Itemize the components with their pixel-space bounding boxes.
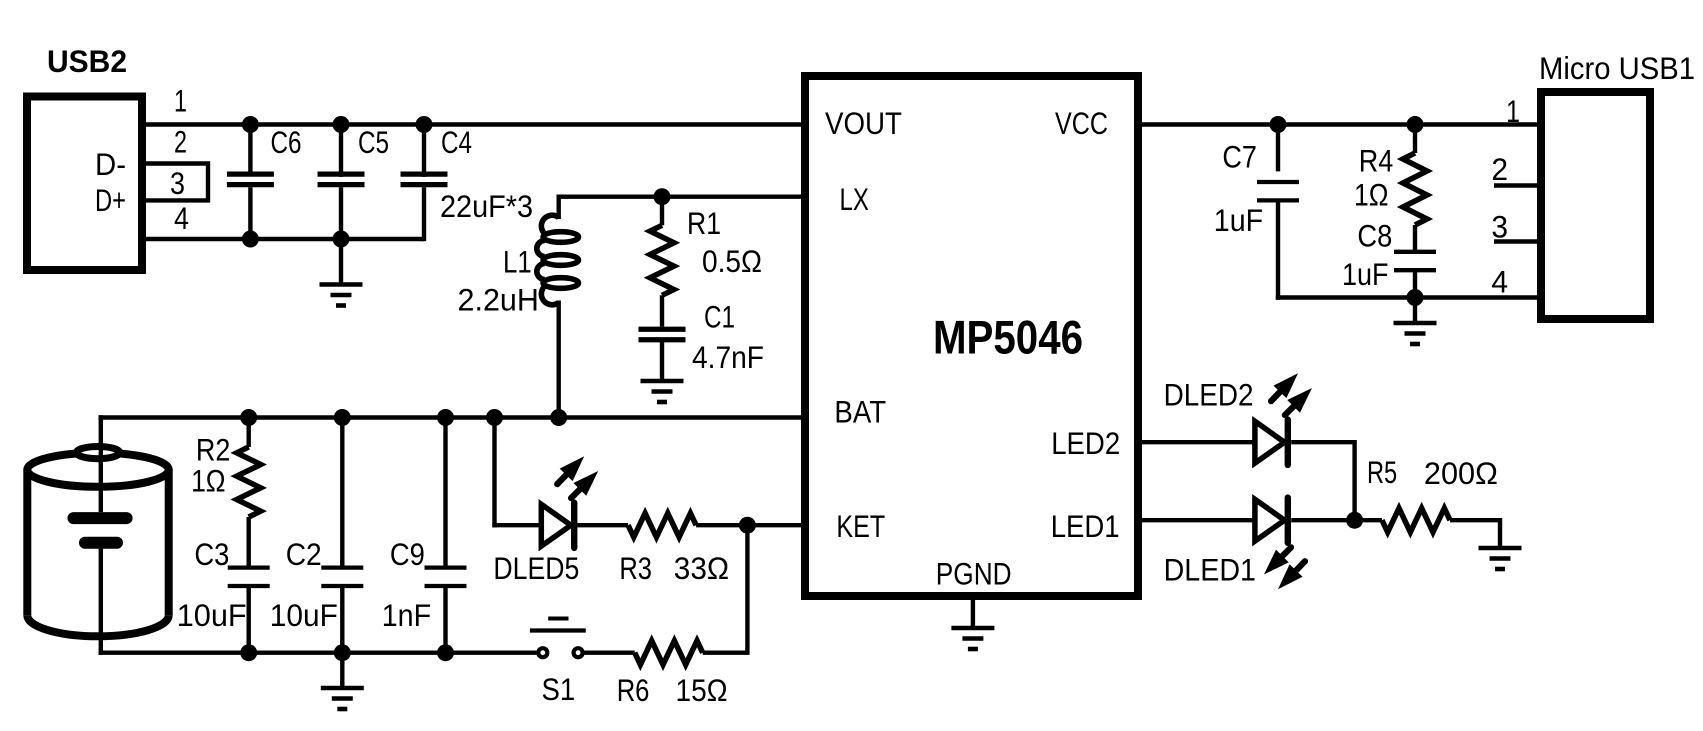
- node dot BAT-DLED5: [486, 409, 503, 426]
- label C9 1nF: [382, 597, 431, 633]
- MicroUSB pin 4 label: [1491, 264, 1508, 300]
- pin label LED1: [1051, 508, 1120, 544]
- node dot C5 bottom: [333, 231, 350, 248]
- label MP5046: [933, 310, 1083, 363]
- svg-text:C7: C7: [1222, 138, 1257, 174]
- MicroUSB pin 2 label: [1491, 151, 1508, 187]
- capacitor C2: [321, 418, 363, 653]
- MicroUSB pin 1 label: [1506, 93, 1520, 129]
- label C3: [194, 536, 229, 572]
- USB2 pin 4 label: [174, 200, 189, 236]
- pin label LX: [840, 181, 869, 217]
- svg-text:R6: R6: [617, 672, 650, 708]
- LED arrows DLED5: [557, 456, 598, 498]
- svg-text:10uF: 10uF: [270, 597, 338, 633]
- label C7 1uF: [1214, 202, 1263, 238]
- pin label PGND: [936, 556, 1012, 592]
- svg-text:4.7nF: 4.7nF: [692, 339, 764, 375]
- label 200ohm: [1424, 455, 1498, 491]
- capacitor C5: [318, 125, 365, 240]
- svg-text:C8: C8: [1357, 218, 1392, 254]
- label C7: [1222, 138, 1257, 174]
- label C4: [441, 124, 472, 160]
- wire DLED1 to R5: [1291, 518, 1382, 522]
- USB2 pin 1 label: [174, 83, 187, 119]
- label R4: [1359, 143, 1394, 179]
- battery B1: [27, 447, 168, 637]
- svg-text:D-: D-: [95, 146, 126, 182]
- diode DLED1: [1255, 498, 1288, 543]
- switch S1: [530, 619, 586, 658]
- label C8: [1357, 218, 1392, 254]
- capacitor C8: [1394, 225, 1436, 298]
- svg-text:1uF: 1uF: [1342, 256, 1389, 292]
- USB2 pin2-pin3 short box: [146, 164, 208, 201]
- USB2 label D+: [95, 182, 126, 218]
- label C5: [358, 124, 389, 160]
- label 33ohm: [674, 550, 729, 586]
- svg-text:L1: L1: [503, 243, 532, 279]
- ground after R5: [1479, 548, 1522, 569]
- wire S1 to R6: [584, 651, 634, 655]
- wire VCC rail: [1138, 122, 1541, 126]
- resistor R5: [1382, 508, 1450, 532]
- svg-text:2: 2: [1491, 151, 1508, 187]
- capacitor C7: [1257, 125, 1299, 300]
- ground under C8: [1394, 323, 1437, 344]
- svg-text:3: 3: [1491, 209, 1508, 245]
- MicroUSB pin 2 stub: [1494, 183, 1537, 187]
- label C8 1uF: [1342, 256, 1389, 292]
- LED arrows DLED2: [1271, 373, 1312, 415]
- label R2: [196, 432, 231, 468]
- svg-text:C2: C2: [286, 536, 322, 572]
- resistor R1: [650, 197, 674, 296]
- wire VOUT rail: [142, 122, 805, 126]
- pin label VCC: [1055, 105, 1108, 141]
- svg-text:4: 4: [1491, 264, 1508, 300]
- svg-text:USB2: USB2: [47, 43, 127, 79]
- wire BAT rail: [99, 415, 805, 419]
- svg-text:LED1: LED1: [1051, 508, 1120, 544]
- node dot C6 bottom: [242, 231, 259, 248]
- wire battery bottom: [99, 549, 103, 655]
- node dot LX-R1: [654, 188, 671, 205]
- svg-text:VOUT: VOUT: [825, 105, 902, 141]
- op-amp IC U1 MP5046 box: [805, 76, 1138, 596]
- wire LX: [557, 195, 806, 220]
- svg-text:LED2: LED2: [1051, 425, 1120, 461]
- label 0.5ohm: [702, 243, 762, 279]
- label C9: [390, 536, 425, 572]
- svg-text:KET: KET: [836, 508, 885, 544]
- label DLED5: [493, 550, 579, 586]
- label R4 1ohm: [1354, 177, 1389, 213]
- label C2 10uF: [270, 597, 338, 633]
- label 4.7nF: [692, 339, 764, 375]
- svg-text:1uF: 1uF: [1214, 202, 1263, 238]
- svg-text:1: 1: [174, 83, 187, 119]
- MicroUSB pin 3 stub: [1494, 239, 1537, 243]
- wire bottom rail: [99, 651, 537, 655]
- svg-text:PGND: PGND: [936, 556, 1012, 592]
- svg-text:LX: LX: [840, 181, 869, 217]
- svg-text:C9: C9: [390, 536, 425, 572]
- capacitor C1: [639, 295, 686, 381]
- svg-text:VCC: VCC: [1055, 105, 1108, 141]
- wire R3 to KET: [696, 523, 805, 527]
- label DLED1: [1164, 551, 1256, 587]
- svg-text:22uF*3: 22uF*3: [440, 188, 533, 224]
- svg-text:Micro USB1: Micro USB1: [1539, 50, 1695, 86]
- ground under C1: [641, 381, 684, 402]
- label 2.2uH: [458, 282, 539, 318]
- diode DLED5: [541, 503, 574, 548]
- USB2 label D-: [95, 146, 126, 182]
- svg-text:1: 1: [1506, 93, 1520, 129]
- svg-text:DLED5: DLED5: [493, 550, 579, 586]
- svg-text:R1: R1: [687, 205, 721, 241]
- label L1: [503, 243, 532, 279]
- node dot C4 top: [416, 116, 433, 133]
- svg-text:2.2uH: 2.2uH: [458, 282, 539, 318]
- pin label BAT: [834, 394, 886, 430]
- resistor R2: [237, 418, 261, 518]
- capacitor C6: [227, 125, 274, 240]
- wire R5 to ground: [1450, 518, 1500, 548]
- label USB2: [47, 43, 127, 79]
- label R1: [687, 205, 721, 241]
- svg-text:C6: C6: [271, 124, 302, 160]
- capacitor C3: [228, 517, 270, 653]
- battery plus plate: [74, 512, 127, 524]
- svg-text:1nF: 1nF: [382, 597, 431, 633]
- label R5: [1367, 454, 1397, 490]
- wire LED1: [1138, 518, 1255, 522]
- wire DLED2 to corner: [1291, 440, 1354, 522]
- svg-text:4: 4: [174, 200, 189, 236]
- svg-text:200Ω: 200Ω: [1424, 455, 1498, 491]
- label R6: [617, 672, 650, 708]
- ground PGND: [951, 628, 994, 649]
- LED arrows DLED1: [1264, 547, 1305, 589]
- wire DLED5 to R3: [577, 523, 628, 527]
- svg-text:R3: R3: [619, 550, 652, 586]
- label C6: [271, 124, 302, 160]
- wire C7C8 rail: [1276, 295, 1541, 299]
- pin label KET: [836, 508, 885, 544]
- wire KET junction down: [745, 525, 749, 655]
- node dot C8 bottom: [1407, 289, 1424, 306]
- label S1: [542, 671, 576, 707]
- wire L1 bottom: [557, 301, 561, 418]
- wire PGND stub: [971, 596, 975, 628]
- wire R6 to junction: [703, 651, 748, 655]
- node dot BAT-C9: [437, 409, 454, 426]
- label C2: [286, 536, 322, 572]
- svg-text:S1: S1: [542, 671, 576, 707]
- capacitor C9: [425, 418, 467, 653]
- svg-text:R5: R5: [1367, 454, 1397, 490]
- svg-text:15Ω: 15Ω: [676, 672, 728, 708]
- wire battery top: [99, 415, 103, 512]
- svg-text:C1: C1: [704, 298, 735, 334]
- svg-text:10uF: 10uF: [177, 597, 247, 633]
- label R3: [619, 550, 652, 586]
- USB2 pin 2 label: [174, 124, 187, 160]
- node dot C6 top: [242, 116, 259, 133]
- wire USB2 pin4 rail: [142, 237, 424, 241]
- pin label VOUT: [825, 105, 902, 141]
- label Micro USB1: [1539, 50, 1695, 86]
- capacitor C4: [401, 125, 448, 242]
- svg-text:2: 2: [174, 124, 187, 160]
- svg-text:C5: C5: [358, 124, 389, 160]
- resistor R4: [1403, 125, 1427, 226]
- resistor R6: [635, 641, 703, 665]
- svg-text:C3: C3: [194, 536, 229, 572]
- label 22uF*3: [440, 188, 533, 224]
- svg-text:1Ω: 1Ω: [191, 462, 226, 498]
- node dot KET junction: [739, 517, 756, 534]
- ground bottom: [321, 688, 364, 709]
- wire C8 ground stub: [1413, 298, 1417, 324]
- node dot LED junction: [1346, 512, 1363, 529]
- USB2 connector J-USB2: [27, 97, 142, 271]
- wire C5 ground stub: [339, 239, 343, 285]
- svg-text:BAT: BAT: [834, 394, 886, 430]
- label R2 1ohm: [191, 462, 226, 498]
- wire bottom ground stub: [340, 653, 344, 688]
- svg-text:C4: C4: [441, 124, 472, 160]
- svg-text:DLED1: DLED1: [1164, 551, 1256, 587]
- label C3 10uF: [177, 597, 247, 633]
- svg-text:MP5046: MP5046: [933, 310, 1083, 363]
- diode DLED2: [1255, 420, 1288, 465]
- label C1: [704, 298, 735, 334]
- MicroUSB pin 3 label: [1491, 209, 1508, 245]
- svg-text:0.5Ω: 0.5Ω: [702, 243, 762, 279]
- node dot VCC-R4: [1407, 116, 1424, 133]
- svg-text:1Ω: 1Ω: [1354, 177, 1389, 213]
- USB2 pin 3 label: [170, 165, 185, 201]
- svg-text:R4: R4: [1359, 143, 1394, 179]
- node dot BAT-R2: [240, 409, 257, 426]
- inductor L1: [537, 215, 579, 305]
- node dot VCC-C7: [1270, 116, 1287, 133]
- pin label LED2: [1051, 425, 1120, 461]
- label 15ohm: [676, 672, 728, 708]
- svg-text:3: 3: [170, 165, 185, 201]
- node dot bottom-C2: [334, 644, 351, 661]
- svg-text:DLED2: DLED2: [1164, 377, 1254, 413]
- wire LED2: [1138, 440, 1255, 444]
- battery minus plate: [85, 537, 117, 549]
- label DLED2: [1164, 377, 1254, 413]
- node dot BAT-C2: [334, 409, 351, 426]
- wire DLED5 branch: [492, 418, 541, 528]
- svg-text:33Ω: 33Ω: [674, 550, 729, 586]
- resistor R3: [628, 513, 696, 537]
- node dot BAT-L1: [550, 409, 567, 426]
- Micro USB1 connector: [1541, 92, 1650, 319]
- node dot bottom-C3: [240, 644, 257, 661]
- node dot C5 top: [333, 116, 350, 133]
- svg-text:D+: D+: [95, 182, 126, 218]
- ground under C5: [320, 285, 363, 306]
- node dot bottom-C9: [437, 644, 454, 661]
